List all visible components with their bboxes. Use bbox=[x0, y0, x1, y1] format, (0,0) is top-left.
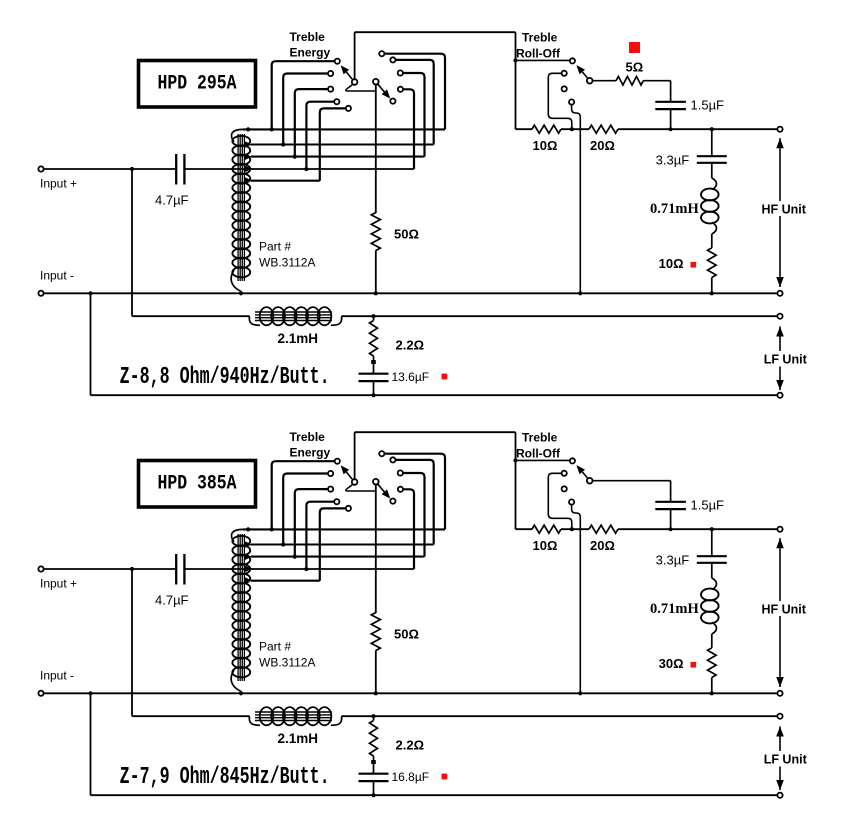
svg-text:HPD 295A: HPD 295A bbox=[158, 73, 238, 96]
svg-text:LF Unit: LF Unit bbox=[764, 353, 808, 367]
svg-text:HF Unit: HF Unit bbox=[762, 202, 807, 216]
svg-text:Input -: Input - bbox=[40, 669, 74, 683]
svg-text:HF Unit: HF Unit bbox=[762, 602, 807, 616]
svg-text:50Ω: 50Ω bbox=[394, 227, 419, 242]
svg-text:0.71mH: 0.71mH bbox=[650, 201, 699, 217]
svg-text:20Ω: 20Ω bbox=[590, 138, 615, 153]
svg-text:Energy: Energy bbox=[290, 46, 331, 60]
svg-text:Energy: Energy bbox=[290, 446, 331, 460]
svg-text:2.2Ω: 2.2Ω bbox=[396, 738, 425, 753]
svg-text:1.5µF: 1.5µF bbox=[691, 98, 725, 113]
svg-text:HPD 385A: HPD 385A bbox=[158, 473, 238, 496]
svg-text:Input +: Input + bbox=[40, 177, 77, 191]
svg-text:4.7µF: 4.7µF bbox=[155, 193, 189, 208]
svg-text:13.6µF: 13.6µF bbox=[392, 370, 430, 384]
svg-text:Input -: Input - bbox=[40, 269, 74, 283]
svg-text:Treble: Treble bbox=[522, 431, 558, 445]
svg-text:20Ω: 20Ω bbox=[590, 538, 615, 553]
svg-text:0.71mH: 0.71mH bbox=[650, 601, 699, 617]
svg-text:WB.3112A: WB.3112A bbox=[259, 656, 315, 670]
svg-text:Part #: Part # bbox=[259, 240, 291, 254]
svg-text:Treble: Treble bbox=[290, 30, 326, 44]
svg-text:2.2Ω: 2.2Ω bbox=[396, 338, 425, 353]
svg-text:3.3µF: 3.3µF bbox=[656, 153, 690, 168]
svg-text:1.5µF: 1.5µF bbox=[691, 498, 725, 513]
svg-text:30Ω: 30Ω bbox=[659, 656, 684, 671]
svg-text:Input +: Input + bbox=[40, 577, 77, 591]
svg-text:10Ω: 10Ω bbox=[659, 256, 684, 271]
svg-text:Treble: Treble bbox=[290, 430, 326, 444]
svg-text:3.3µF: 3.3µF bbox=[656, 553, 690, 568]
svg-text:2.1mH: 2.1mH bbox=[278, 331, 319, 346]
svg-text:Part #: Part # bbox=[259, 640, 291, 654]
svg-text:2.1mH: 2.1mH bbox=[278, 731, 319, 746]
svg-text:10Ω: 10Ω bbox=[533, 138, 558, 153]
svg-text:Roll-Off: Roll-Off bbox=[516, 447, 561, 461]
svg-text:16.8µF: 16.8µF bbox=[392, 770, 430, 784]
svg-text:10Ω: 10Ω bbox=[533, 538, 558, 553]
svg-text:WB.3112A: WB.3112A bbox=[259, 256, 315, 270]
svg-text:Z-8,8 Ohm/940Hz/Butt.: Z-8,8 Ohm/940Hz/Butt. bbox=[120, 364, 330, 391]
svg-text:5Ω: 5Ω bbox=[626, 60, 644, 75]
svg-text:Roll-Off: Roll-Off bbox=[516, 47, 561, 61]
svg-text:50Ω: 50Ω bbox=[394, 627, 419, 642]
svg-text:Z-7,9 Ohm/845Hz/Butt.: Z-7,9 Ohm/845Hz/Butt. bbox=[120, 764, 330, 791]
svg-text:LF Unit: LF Unit bbox=[764, 753, 808, 767]
svg-text:Treble: Treble bbox=[522, 31, 558, 45]
svg-text:4.7µF: 4.7µF bbox=[155, 593, 189, 608]
